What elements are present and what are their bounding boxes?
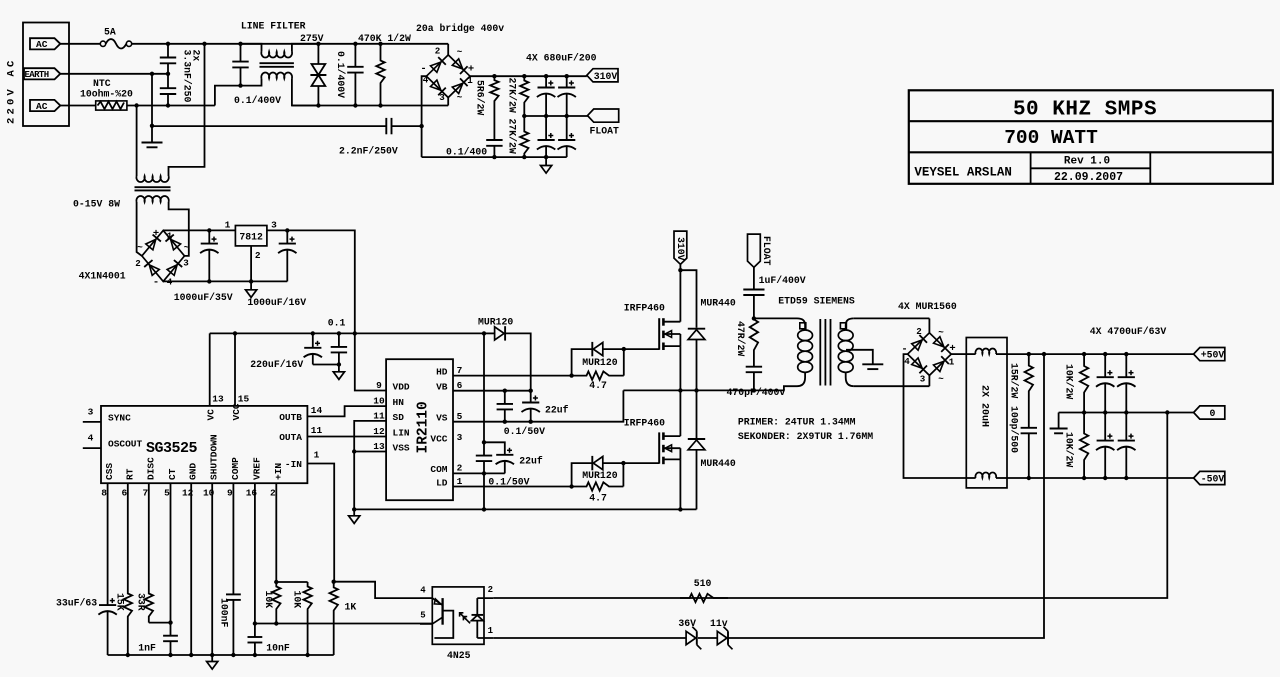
svg-text:220V AC: 220V AC [6,57,18,124]
capacitor 4700uF/63V (top-right) [1125,354,1127,377]
svg-text:4.7: 4.7 [589,380,607,391]
svg-text:OUTB: OUTB [279,412,302,423]
wire: SG3525 ground rail [108,654,334,656]
capacitor 0.1/400V (filter input) [240,44,242,62]
aux transformer core [135,186,171,188]
capacitor 680uF/200 (top-right) [566,76,568,87]
thermistor NTC 10ohm-%20 [60,105,95,107]
inductor L2 2X 20uH [966,338,1007,488]
svg-text:3.3nF/250: 3.3nF/250 [182,50,193,103]
svg-text:5: 5 [420,611,425,621]
svg-text:470K 1/2W: 470K 1/2W [358,33,411,44]
svg-text:220uF/16V: 220uF/16V [250,359,303,370]
svg-text:10K/2W: 10K/2W [1064,364,1075,399]
svg-text:LD: LD [436,478,448,489]
svg-text:NTC: NTC [93,78,111,89]
capacitor 220uF/16V [312,333,314,347]
transistor Q1 IRFP460 (high side) [658,318,660,350]
ground (12v bypass) [337,362,341,366]
svg-text:0.1/50V: 0.1/50V [488,477,529,488]
svg-text:3: 3 [271,220,277,231]
wire: +IN node row [276,581,307,583]
pin 3 SYNC [83,421,101,423]
wire: VSS stub [354,451,386,453]
4N25 phototransistor [441,598,443,625]
wire: OUTB to HIN [307,406,386,416]
svg-text:HD: HD [436,367,448,378]
wire: VB [453,390,531,392]
svg-text:AC: AC [36,101,48,112]
svg-text:SYNC: SYNC [108,412,131,423]
svg-text:2: 2 [135,258,141,269]
svg-text:LINE FILTER: LINE FILTER [241,21,306,32]
svg-text:2: 2 [916,326,922,337]
resistor 10K/2W (upper) [1080,354,1088,412]
wire: line tap down to aux transformer primary [169,44,205,172]
svg-text:100p/500: 100p/500 [1009,406,1020,453]
capacitor 680uF/200 (top-left) [545,76,547,87]
ground (SG3525) [211,655,213,662]
svg-text:AC: AC [36,39,48,50]
diode MUR440 (upper clamp) [688,330,705,340]
resistor 15R/2W [1025,354,1033,428]
wire: low side ground rail [354,508,696,510]
svg-text:0.1/400V: 0.1/400V [335,51,346,98]
wire: earth down to chassis node [151,74,153,126]
wire: -50V rail [1007,477,1194,479]
resistor 4.7 (high side gate) [572,371,624,379]
connector J1 220V AC input box [23,23,69,127]
wire: bridge minus drop [422,76,427,157]
capacitor 100p/500 [1021,427,1037,429]
wire: aux dc plus row [163,229,235,231]
capacitor 3.3nF/250 (upper X cap) [167,44,169,58]
svg-text:2: 2 [457,462,463,473]
diode MUR120 (bootstrap) [484,332,495,334]
ground (output midpoint) [1058,413,1060,429]
svg-text:3: 3 [183,258,189,269]
ground (chassis) [142,142,163,144]
wire: pin5 stub [420,623,432,625]
wire: COM/gnd drop [483,473,485,509]
svg-text:15: 15 [238,394,250,405]
svg-text:EARTH: EARTH [25,70,49,80]
capacitor 22uf (bootstrap) [530,391,532,403]
capacitor 1000uF/16V [286,230,288,243]
svg-text:27K/2W: 27K/2W [507,78,518,113]
wire: 7812 pin2 to gnd [250,246,252,282]
zener diode 36V [686,631,696,644]
svg-text:~: ~ [457,92,463,103]
svg-text:4X 680uF/200: 4X 680uF/200 [526,53,597,64]
svg-text:~: ~ [137,242,143,253]
capacitor 1nF (CT) [170,483,172,636]
svg-text:4: 4 [420,586,426,596]
svg-text:+IN: +IN [273,463,284,480]
svg-text:310V: 310V [675,237,686,261]
tag FLOAT (primary return) [748,234,761,267]
svg-text:IRFP460: IRFP460 [624,417,665,428]
wire: 12V from 7812 to VDD [267,230,386,390]
svg-text:LIN: LIN [393,428,410,439]
svg-text:22uf: 22uf [519,456,543,467]
svg-text:36V: 36V [678,618,696,629]
svg-text:310V: 310V [594,71,618,82]
capacitor 0.1 (vdd bypass) [338,333,340,347]
svg-text:510: 510 [694,578,712,589]
varistor 275V [317,44,319,64]
wire: +50V rail [1007,353,1194,355]
svg-text:0: 0 [1210,408,1216,419]
svg-text:6: 6 [121,488,127,499]
capacitor 0.1/50V (bootstrap) [504,391,506,404]
wire: pin4 stub [420,597,432,599]
svg-text:-IN: -IN [285,459,302,470]
svg-text:0.1/50V: 0.1/50V [504,426,545,437]
capacitor 680uF/200 (bottom-left) [545,116,547,140]
wire: fused line to bridge (top rail y=43.8) [132,43,449,45]
svg-text:22.09.2007: 22.09.2007 [1054,171,1123,184]
svg-text:-: - [153,277,159,289]
svg-text:11: 11 [311,425,323,436]
svg-text:4X 4700uF/63V: 4X 4700uF/63V [1090,326,1167,337]
wire: secondary center tap [846,350,873,365]
svg-text:IR2110: IR2110 [416,401,432,453]
capacitor 680uF/200 (bottom-right) [566,116,568,140]
svg-text:13: 13 [212,394,224,405]
diode MUR120 (low side speedup) [572,463,593,486]
ground (aux) [250,281,252,289]
svg-text:4: 4 [904,356,910,367]
ETD59 core [819,319,821,386]
capacitor 0.1/400V (DC side) [354,44,356,67]
svg-text:3: 3 [457,432,463,443]
resistor 10K (lower divider) [303,582,311,655]
svg-text:5: 5 [164,488,170,499]
svg-text:12: 12 [373,426,385,437]
svg-text:3: 3 [88,407,94,418]
svg-text:4X1N4001: 4X1N4001 [79,270,126,281]
svg-text:ETD59 SIEMENS: ETD59 SIEMENS [778,296,855,307]
ground (bus caps) [545,157,547,165]
wire: bottom rail filter to bridge [292,105,448,107]
connector pin AC (neutral) [30,100,60,111]
phase dot primary [800,323,806,329]
wire: Q1 drain to 310V [679,270,681,322]
svg-text:5R6/2W: 5R6/2W [475,80,486,115]
svg-text:47R/2W: 47R/2W [735,321,746,356]
wire: VCC row [482,440,486,444]
svg-text:2.2nF/250V: 2.2nF/250V [339,146,398,157]
resistor 10K (upper divider) [272,483,280,623]
4N25 light arrows [460,613,467,620]
transformer T1 0-15V 8W primary [136,172,138,177]
svg-text:275V: 275V [300,33,324,44]
svg-text:6: 6 [457,380,463,391]
capacitor 4700uF/63V (top-left) [1104,354,1106,377]
capacitor 33uF/63 (soft start) [107,483,109,605]
capacitor 4700uF/63V (bottom-left) [1104,413,1106,441]
svg-text:14: 14 [311,405,323,416]
svg-text:~: ~ [457,47,463,58]
svg-text:VSS: VSS [393,443,410,454]
wire: OUTA to LIN [307,436,386,438]
resistor 33R (DISC) [145,483,153,622]
svg-text:1uF/400V: 1uF/400V [759,275,806,286]
wire: VCC pin15 riser [234,333,236,406]
svg-text:1: 1 [488,626,494,636]
svg-text:MUR440: MUR440 [701,298,736,309]
svg-text:+: + [468,64,474,76]
svg-text:22uf: 22uf [545,405,569,416]
svg-text:VC: VC [205,409,216,421]
capacitor 470pF/400v [746,366,762,368]
svg-text:10nF: 10nF [266,643,290,654]
bridge rectifier 4X1N4001 [142,230,185,281]
optocoupler U5 4N25 [432,587,484,644]
connector pin AC (line) [30,38,60,49]
resistor 4.7 (low side gate) [572,482,624,490]
capacitor 2.2nF/250V (earth line) [152,125,386,127]
svg-text:50 KHZ SMPS: 50 KHZ SMPS [1013,99,1157,122]
wire: bridge plus rail to 310V tag [470,75,587,77]
resistor 27K/2W (upper) [520,76,528,116]
resistor 5R6/2W [490,76,498,140]
svg-text:2: 2 [255,250,261,261]
svg-text:PRIMER: 24TUR 1.34MM: PRIMER: 24TUR 1.34MM [738,417,856,428]
svg-text:MUR120: MUR120 [582,357,617,368]
svg-text:FLOAT: FLOAT [761,236,772,266]
svg-text:5A: 5A [104,27,116,38]
4N25 LED [476,598,478,615]
wire: cap bank mid rail [524,115,587,117]
capacitor 3.3nF/250 (lower X cap) [167,74,169,88]
svg-text:~: ~ [938,374,944,385]
svg-text:0.1/400V: 0.1/400V [234,95,281,106]
svg-text:1: 1 [225,220,231,231]
svg-text:FLOAT: FLOAT [590,126,620,137]
inductor L1 line filter bottom winding [241,79,262,86]
ground (IR2110 local) [352,507,356,511]
svg-text:10K: 10K [263,591,274,609]
wire: Q2 drain to switch node [679,390,681,436]
wire: bridge bottom to rail [447,98,449,106]
svg-text:11v: 11v [710,618,728,629]
svg-text:1: 1 [314,450,320,461]
svg-text:470pF/400v: 470pF/400v [727,387,786,398]
svg-text:+: + [153,228,159,240]
svg-text:7: 7 [142,488,148,499]
ground (center tap) [862,363,883,365]
wire: aux dc minus row [163,280,287,282]
wire: 33R to CT [149,622,171,624]
svg-text:3: 3 [439,92,445,103]
wire: SD tied to VSS [354,421,386,510]
svg-text:GND: GND [188,463,199,480]
svg-text:15R/2W: 15R/2W [1009,363,1020,398]
svg-text:VREF: VREF [251,457,262,480]
svg-text:VCC: VCC [430,433,447,444]
tag 310V [587,69,618,82]
capacitor 1uF/400V [753,267,755,289]
svg-text:1: 1 [949,357,955,368]
phase dot secondary [840,323,846,329]
svg-text:8: 8 [101,488,107,499]
wire: Q2 source to ground rail [679,459,681,509]
wire: VREF divider row [255,623,432,625]
svg-text:4X MUR1560: 4X MUR1560 [898,301,957,312]
svg-text:10K/2W: 10K/2W [1064,432,1075,467]
wire: -IN to 1K and opto collector [307,464,334,582]
svg-text:1: 1 [167,231,173,242]
tag 310V (bus) [674,231,687,264]
svg-text:OSCOUT: OSCOUT [108,439,143,450]
svg-text:1: 1 [457,476,463,487]
tag 0 [1194,406,1225,419]
svg-text:13: 13 [373,441,385,452]
svg-text:RT: RT [124,468,135,480]
tag -50V [1194,471,1225,484]
svg-text:CSS: CSS [104,463,115,480]
svg-text:20a bridge 400v: 20a bridge 400v [416,23,504,34]
inductor L1 line filter top winding [241,44,262,52]
op-amp U4 IR2110 gate driver [386,359,453,500]
svg-text:5: 5 [457,411,463,422]
svg-text:CT: CT [167,468,178,480]
bridge rectifier 20a bridge 400v [426,55,470,98]
svg-text:2X 20uH: 2X 20uH [979,385,990,427]
svg-text:700 WATT: 700 WATT [1004,127,1098,149]
svg-text:100nF: 100nF [219,598,230,628]
connector pin EARTH [24,68,60,79]
svg-text:MUR120: MUR120 [478,316,513,327]
pin 4 OSCOUT [83,447,101,449]
wire: NTC output line [127,105,215,107]
svg-text:Rev 1.0: Rev 1.0 [1064,155,1110,167]
svg-text:9: 9 [376,380,382,391]
svg-text:VB: VB [436,382,448,393]
svg-text:10K: 10K [292,591,303,609]
4N25 base stub [434,611,453,638]
resistor 1K (feedback load) [330,582,338,655]
wire: neutral tap down to aux primary [136,106,138,172]
wire: 12V rail [210,332,484,334]
resistor 27K/2W (lower) [520,116,528,157]
tag +50V [1194,348,1225,361]
capacitor 0.1/400 (snubber) [493,139,495,141]
svg-text:SHUTDOWN: SHUTDOWN [209,434,220,480]
wire: 0V sense drop [493,413,1167,599]
svg-text:7812: 7812 [239,231,263,242]
svg-text:VS: VS [436,413,448,424]
diode MUR440 (lower clamp) [696,390,698,438]
fuse F1 5A [60,43,100,45]
capacitor 0.1/50V (vcc bypass) [483,442,485,455]
title block [909,90,1273,184]
svg-text:2: 2 [488,585,493,595]
svg-text:VCC: VCC [231,403,242,420]
svg-text:3: 3 [920,374,926,385]
svg-text:SG3525: SG3525 [146,440,198,457]
wire: secondary left to aux bridge [137,202,142,256]
svg-text:7: 7 [457,365,463,376]
svg-text:COMP: COMP [230,457,241,480]
wire: 0V rail [1059,412,1194,414]
svg-text:DISC: DISC [145,457,156,480]
svg-text:OUTA: OUTA [279,432,302,443]
svg-text:0.1: 0.1 [328,317,346,328]
tag FLOAT (cap midpoint) [588,109,619,122]
svg-text:15K: 15K [115,593,126,611]
wire: secondary right step to aux bridge [169,202,189,256]
regulator U2 7812 [235,226,267,246]
capacitor 4700uF/63V (bottom-right) [1125,413,1127,441]
transistor Q2 IRFP460 (low side) [658,432,660,463]
wire: pin1 stub [477,637,493,639]
svg-text:1K: 1K [345,602,357,613]
svg-text:-50V: -50V [1201,474,1225,485]
capacitor 22uf (vcc) [504,454,506,456]
wire: +50V sense drop [729,354,1045,638]
svg-text:1000uF/35V: 1000uF/35V [174,292,233,303]
svg-text:COM: COM [430,464,447,475]
op-amp U3 SG3525 PWM controller [101,406,307,483]
wire: GND pin 12 [190,483,192,655]
svg-text:4N25: 4N25 [447,650,471,661]
svg-text:VEYSEL ARSLAN: VEYSEL ARSLAN [914,166,1012,180]
capacitor 10nF (VREF) [254,483,256,637]
wire: 310V to clamp diodes [680,270,696,328]
switch node row [623,389,755,391]
svg-text:11: 11 [373,410,385,421]
svg-text:SD: SD [393,412,405,423]
svg-text:27K/2W: 27K/2W [507,119,518,154]
wire: minus rail [422,156,567,158]
svg-text:33uF/63: 33uF/63 [56,598,97,609]
junction dots on top line [166,42,170,46]
capacitor 100nF (COMP) [232,483,234,594]
wire: COM row [453,472,505,474]
resistor 47R/2W [750,318,758,366]
resistor 10K/2W (lower) [1080,413,1088,479]
wire: SHUTDOWN pin 10 [211,483,213,655]
resistor 510 [680,594,728,602]
bridge rectifier 4X MUR1560 [928,318,930,332]
wire: HO [453,375,572,377]
capacitor 1000uF/35V [208,230,210,243]
resistor 470K 1/2W [376,44,384,106]
wire: bridge plus to inductor [951,353,966,355]
wire: Q1 source to switch node [679,346,681,390]
wire: LO [453,486,572,488]
wire: filter bottom-left step to neutral [215,86,241,106]
diode MUR120 (high side speedup) [572,349,593,376]
svg-text:~: ~ [938,327,944,338]
svg-text:+50V: +50V [1201,350,1225,361]
svg-text:IRFP460: IRFP460 [624,302,665,313]
svg-text:0.1/400: 0.1/400 [446,147,487,158]
wire: pin2 stub [477,597,493,599]
transformer T2 secondary [846,318,854,330]
svg-text:2: 2 [270,488,276,499]
svg-text:33R: 33R [136,593,147,611]
svg-text:0-15V 8W: 0-15V 8W [73,199,120,210]
svg-text:HN: HN [393,397,405,408]
svg-text:~: ~ [184,242,190,253]
svg-text:10: 10 [373,395,385,406]
wire: 12V down to VCC [483,333,485,442]
line filter core [260,62,294,64]
